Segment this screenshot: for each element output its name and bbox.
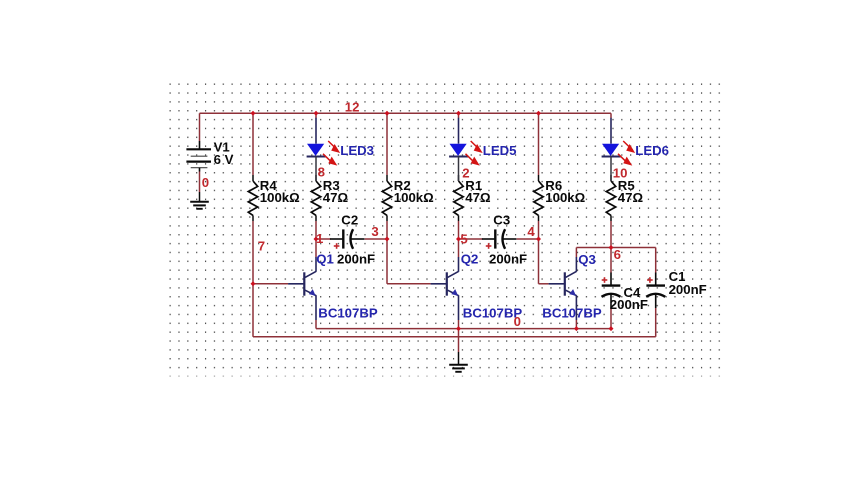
- svg-text:5: 5: [460, 231, 467, 246]
- resistor R6: [534, 175, 543, 221]
- svg-text:Q2: Q2: [461, 251, 479, 266]
- capacitor C3: [482, 229, 517, 249]
- wire battery ground stem: [199, 192, 201, 202]
- resistor R5: [606, 175, 615, 221]
- label LED3: [340, 143, 374, 158]
- label C4 value: [610, 297, 648, 312]
- wire Q3 emitter drop: [575, 320, 577, 329]
- LED LED6 cathode bar: [602, 156, 621, 158]
- node bus-LED3 junction: [314, 111, 319, 116]
- wire net 6 to Q3 collector: [575, 248, 577, 258]
- LED LED3 cathode bar: [307, 156, 326, 158]
- svg-text:47Ω: 47Ω: [323, 190, 349, 205]
- node 12 label: [345, 100, 360, 115]
- svg-text:12: 12: [345, 100, 360, 115]
- label Q3 value BC107BP: [542, 305, 602, 320]
- node net4 junction: [536, 237, 541, 242]
- node 5 label: [460, 231, 467, 246]
- LED LED5 triangle: [450, 144, 467, 156]
- LED LED6 triangle: [602, 144, 619, 156]
- label C3 plus: [486, 243, 492, 249]
- LED LED6 emission arrow upper: [623, 141, 635, 153]
- svg-text:200nF: 200nF: [489, 251, 527, 266]
- svg-text:200nF: 200nF: [669, 282, 707, 297]
- wire Q3 base feed: [539, 283, 549, 285]
- svg-text:C2: C2: [341, 213, 358, 228]
- wire R4 column lower / net 7 riser: [252, 221, 254, 284]
- wire net 6 to C4 top: [610, 248, 612, 273]
- LED LED5 anode pin: [458, 118, 460, 144]
- svg-text:C3: C3: [493, 213, 510, 228]
- resistor R1: [454, 175, 463, 221]
- resistor R3: [311, 175, 320, 221]
- svg-text:47Ω: 47Ω: [618, 190, 644, 205]
- node bus-R4 junction: [251, 111, 256, 116]
- wire battery positive riser: [199, 113, 201, 141]
- label R3 value: [323, 178, 349, 205]
- label R5 value: [618, 178, 644, 205]
- svg-text:100kΩ: 100kΩ: [260, 190, 300, 205]
- wire to C2 left pin: [316, 238, 331, 240]
- svg-text:3: 3: [371, 224, 378, 239]
- LED LED3 emission arrow lower: [323, 154, 337, 166]
- transistor Q1: [288, 257, 316, 320]
- capacitor C1: [646, 273, 665, 309]
- svg-text:Q1: Q1: [316, 251, 334, 266]
- LED LED3 cathode lead: [315, 157, 317, 182]
- label C1: [669, 269, 686, 284]
- svg-text:0: 0: [514, 314, 521, 329]
- svg-text:BC107BP: BC107BP: [542, 305, 602, 320]
- wire Q2 base feed: [387, 283, 431, 285]
- LED LED3 anode pin: [315, 118, 317, 144]
- LED LED6 anode pin: [610, 118, 612, 144]
- node 0 label: [202, 175, 209, 190]
- wire LED3 top stub: [315, 113, 317, 118]
- wire net 6 horizontal: [576, 247, 655, 249]
- wire R4 column upper: [252, 113, 254, 175]
- wire R6 column upper: [538, 113, 540, 175]
- wire net 5 junction to Q2 collector: [458, 239, 460, 257]
- wire R2 column upper: [386, 113, 388, 175]
- svg-text:LED3: LED3: [340, 143, 374, 158]
- wire Q1 base feed: [253, 283, 288, 285]
- label C2 value: [337, 251, 375, 266]
- wire net 6 to C1 top: [655, 248, 657, 273]
- label C1 value: [669, 282, 707, 297]
- label R6 value: [545, 178, 585, 205]
- node net5 junction: [456, 237, 461, 242]
- node bus-LED5 junction: [456, 111, 461, 116]
- svg-text:7: 7: [258, 239, 265, 254]
- capacitor C4: [602, 273, 621, 309]
- LED LED6 emission arrow lower: [618, 154, 632, 166]
- ground: [449, 365, 468, 372]
- wire net 0 ground bus: [316, 328, 611, 330]
- wire net 12 top bus: [200, 112, 612, 114]
- wire battery negative to net 0 label: [199, 172, 201, 193]
- svg-text:LED5: LED5: [483, 143, 517, 158]
- LED LED3 emission arrow upper: [328, 141, 340, 153]
- transistor Q3: [549, 257, 577, 320]
- svg-text:8: 8: [318, 164, 325, 179]
- wire net 4 down to Q3 base row: [538, 239, 540, 284]
- label LED5: [483, 143, 517, 158]
- wire net 3 down to Q2 base row: [386, 239, 388, 284]
- svg-text:Q3: Q3: [578, 252, 596, 267]
- wire net 7 to C1 bottom: [655, 308, 657, 337]
- ground stem lower: [458, 352, 460, 365]
- wire net 1 junction to Q1 collector: [315, 239, 317, 257]
- node 1 label: [316, 231, 323, 246]
- node 8 label: [318, 164, 325, 179]
- wire C4 bottom to net 0: [610, 308, 612, 329]
- label C1 plus: [647, 277, 653, 283]
- label R1 value: [465, 178, 491, 205]
- wire net 1 R3 to junction: [315, 221, 317, 239]
- node net7 junction: [251, 281, 256, 286]
- label C2: [341, 213, 358, 228]
- wire Q2 emitter drop: [458, 320, 460, 329]
- svg-text:1: 1: [316, 231, 323, 246]
- node 0 label: [514, 314, 521, 329]
- svg-text:LED6: LED6: [635, 143, 669, 158]
- node bus-R6 junction: [536, 111, 541, 116]
- node 6 label: [614, 247, 621, 262]
- ground: [190, 202, 209, 209]
- label R2 value: [394, 178, 434, 205]
- label C3: [493, 213, 510, 228]
- wire net 5 R1 to junction: [458, 221, 460, 239]
- label V1 value: [214, 140, 234, 167]
- node bus-R2 junction: [385, 111, 390, 116]
- label C4: [624, 285, 642, 300]
- node 3 label: [371, 224, 378, 239]
- resistor R4: [248, 175, 257, 221]
- wire net 6 R5 to junction: [610, 221, 612, 248]
- wire net 3 R2 to junction: [386, 221, 388, 239]
- label Q3: [578, 252, 596, 267]
- svg-text:10: 10: [613, 165, 628, 180]
- wire LED5 top stub: [458, 113, 460, 118]
- node net0-C4 junction: [609, 326, 614, 331]
- wire from C3 right pin: [517, 238, 539, 240]
- label C2 plus: [334, 243, 340, 249]
- node 2 label: [462, 165, 469, 180]
- svg-text:4: 4: [527, 224, 535, 239]
- wire from C2 right pin: [365, 238, 387, 240]
- label Q1: [316, 251, 334, 266]
- wire ground stem: [458, 329, 460, 352]
- svg-text:6 V: 6 V: [214, 152, 234, 167]
- label Q2: [461, 251, 479, 266]
- LED LED5 cathode lead: [458, 157, 460, 182]
- LED LED5 cathode bar: [449, 156, 468, 158]
- label C4 plus: [602, 277, 608, 283]
- svg-text:0: 0: [202, 175, 209, 190]
- transistor Q2: [431, 257, 459, 320]
- wire net 4 R6 to junction: [538, 221, 540, 239]
- svg-text:6: 6: [614, 247, 621, 262]
- svg-text:200nF: 200nF: [610, 297, 648, 312]
- wire to C3 left pin: [459, 238, 483, 240]
- label R4 value: [260, 178, 300, 205]
- wire net 7 left vertical: [252, 284, 254, 337]
- node net0-ground junction: [456, 326, 461, 331]
- LED LED5 emission arrow lower: [466, 154, 480, 166]
- node 4 label: [527, 224, 535, 239]
- svg-text:200nF: 200nF: [337, 251, 375, 266]
- label C3 value: [489, 251, 527, 266]
- svg-text:47Ω: 47Ω: [465, 190, 491, 205]
- LED LED3 triangle: [307, 144, 324, 156]
- label LED6: [635, 143, 669, 158]
- capacitor C2: [330, 229, 365, 249]
- svg-text:100kΩ: 100kΩ: [545, 190, 585, 205]
- node 10 label: [613, 165, 628, 180]
- wire LED6 top stub: [610, 113, 612, 118]
- label Q2 value BC107BP: [463, 305, 523, 320]
- LED LED5 emission arrow upper: [471, 141, 483, 153]
- node net3 junction: [385, 237, 390, 242]
- LED LED6 cathode lead: [610, 157, 612, 182]
- node net1 junction: [314, 237, 319, 242]
- label Q1 value BC107BP: [318, 305, 378, 320]
- node net0-Q3e junction: [574, 326, 579, 331]
- svg-text:BC107BP: BC107BP: [318, 305, 378, 320]
- wire net 7 bottom run: [253, 336, 656, 338]
- svg-text:100kΩ: 100kΩ: [394, 190, 434, 205]
- node net6 junction: [609, 245, 614, 250]
- resistor R2: [382, 175, 391, 221]
- battery V1: [186, 141, 211, 172]
- node 7 label: [258, 239, 265, 254]
- svg-text:2: 2: [462, 165, 469, 180]
- wire Q1 emitter drop: [315, 320, 317, 329]
